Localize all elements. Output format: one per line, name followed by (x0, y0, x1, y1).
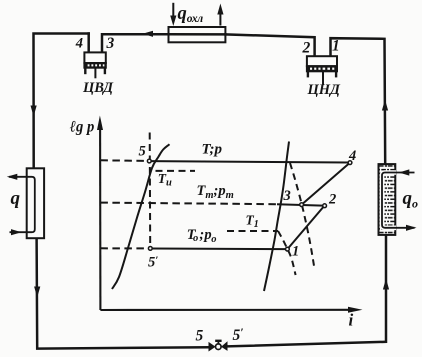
condenser cooling water tube (9, 177, 35, 232)
svg-text:q: q (11, 188, 21, 209)
vertical dashed throttling line 5-5' (149, 133, 152, 247)
svg-text:ЦВД: ЦВД (82, 80, 114, 96)
wire valve to bottom-right corner and up to evaporator (227, 235, 386, 347)
wire condenser bottom down to bottom-left corner (37, 238, 209, 348)
dashed isotherm T_u segment (156, 170, 196, 172)
flow arrow up on upper-right pipe (382, 100, 388, 111)
intercooler heat exchanger (169, 27, 226, 42)
q_ohl inlet arrow down (172, 3, 174, 18)
compression line 3-4 (303, 164, 349, 204)
svg-text:i: i (349, 311, 354, 330)
q_ohl outlet arrow up (219, 13, 221, 26)
compression line 1-2 (289, 207, 323, 247)
state point 5' (148, 247, 152, 251)
compressor U1 CVD body (84, 52, 105, 78)
water inlet arrow right (11, 229, 22, 235)
water outlet arrow left (7, 174, 17, 180)
evaporator brine tube white casing (382, 173, 396, 228)
bottom pressure line To;po dashed part (100, 247, 148, 249)
svg-text:3: 3 (283, 188, 291, 204)
saturated liquid curve (left) (112, 144, 170, 289)
state point 3 (300, 203, 304, 207)
compressor U2 CND body (307, 56, 337, 84)
saturated vapor curve (right) (264, 142, 289, 292)
flow arrow down on lower-left pipe (34, 287, 40, 298)
evaporator brine tube (382, 173, 415, 228)
wire through intercooler (169, 33, 226, 36)
y-axis lg p (99, 128, 101, 310)
svg-text:ЦНД: ЦНД (307, 82, 342, 98)
brine outlet arrow right (406, 225, 417, 231)
wire pipe1 to top-right corner and down to evaporator (331, 38, 386, 164)
svg-text:ℓg p: ℓg p (69, 119, 94, 136)
state point 4 (348, 161, 352, 165)
top pressure line T;p dashed part (100, 159, 147, 162)
flow arrow up on lower-right pipe (383, 279, 389, 290)
bottom pressure line solid 5' to 1 (152, 248, 285, 251)
svg-text:4: 4 (75, 36, 83, 52)
top pressure line T;p solid 5 to 4 (151, 161, 348, 162)
svg-text:1: 1 (332, 38, 340, 55)
svg-text:5: 5 (139, 144, 146, 160)
svg-text:2: 2 (328, 192, 336, 208)
piston ring notches CVD (88, 64, 105, 66)
middle pressure line Tm;pm dashed part (100, 203, 277, 205)
wire pipe4 vertical into CVD (87, 34, 90, 53)
x-axis i (100, 309, 350, 311)
wire pipe3 vertical and to intercooler (102, 34, 169, 52)
dashed isotherm T1 through point 1 (278, 231, 296, 275)
evaporator (right heat exchanger) (379, 164, 396, 235)
wire top-left from pipe4 to corner and down left side to condenser (34, 34, 89, 169)
state point 2 (323, 204, 327, 208)
piston ring notches CND (310, 68, 334, 70)
wire intercooler to pipe2 (225, 34, 314, 56)
condenser (left heat exchanger) (27, 168, 44, 238)
svg-text:2: 2 (302, 40, 311, 57)
throttle valve (209, 341, 228, 352)
middle pressure line solid 3 to 2 (277, 204, 323, 205)
svg-text:4: 4 (348, 148, 356, 164)
svg-text:5: 5 (196, 328, 204, 345)
svg-text:1: 1 (292, 244, 299, 260)
svg-text:T;p: T;p (202, 142, 223, 158)
flow arrow left on top wire (143, 31, 154, 37)
state point 1 (286, 247, 290, 251)
state point 5 (147, 159, 151, 163)
svg-text:3: 3 (106, 35, 115, 52)
dashed isotherm T1 horizontal segment (227, 230, 278, 232)
dashed isotherm T through point 3 (290, 163, 314, 267)
brine inlet arrow left (399, 169, 410, 175)
flow arrow down on left wire (31, 106, 37, 117)
